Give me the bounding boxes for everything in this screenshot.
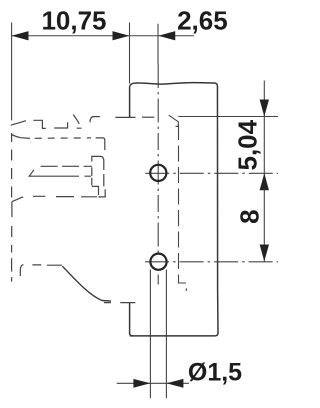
node: rectangle bottom edge (dashed) (12, 197, 23, 202)
node: top contour dash b (115, 116, 135, 118)
node: center line vertical x=158 (dash-dot) (157, 64, 159, 285)
svg-text:8: 8 (235, 209, 265, 223)
node: hole 2 (circle) (150, 254, 166, 270)
wire: extension line right (x=158) (157, 24, 159, 64)
node: bracket right lower (92, 167, 104, 195)
node: rect bottom right corner (99, 189, 106, 197)
node: body foot curve (62, 266, 111, 301)
node: beak upper jaw (11, 121, 26, 126)
node: left vertical dash below beak (11, 133, 13, 142)
node: rectangle bottom chamfer (11, 202, 13, 282)
node: left vertical hidden line (dashed) (11, 150, 13, 200)
node: foot hidden dashes (104, 302, 135, 304)
svg-text:5,04: 5,04 (233, 119, 263, 170)
node: arrow down to y=116.5 (260, 100, 269, 117)
node: arrow right of 10,75 / left of 2,65 (113, 31, 130, 40)
node: body foot left edge (130, 303, 133, 336)
node: arrow right of 2,65 (158, 31, 175, 40)
node: arrow right to x=150.4 (133, 379, 150, 388)
wire: extension line mid (x=129.5) (129, 23, 131, 84)
node: beak lower jaw (11, 134, 30, 138)
wire: extension line y=116.5 (178, 116, 278, 118)
svg-text:Ø1,5: Ø1,5 (188, 359, 242, 387)
node: top contour hook diagonal (73, 115, 81, 129)
node: slot lower line with notch (29, 170, 91, 176)
wire: extension line left (x=11.5) (11, 23, 13, 121)
wire: bottom ext line right (x=165.8) (165, 270, 167, 399)
node: arrow down to y=261.5 (260, 245, 269, 262)
node: bracket inner rect (92, 156, 104, 170)
wire: bottom ext line left (x=150.4) (149, 270, 151, 399)
node: top contour corner curve (90, 117, 100, 123)
svg-text:10,75: 10,75 (41, 6, 106, 36)
wire: right dimension line x=264.3 (263, 81, 265, 262)
node: arrow left of 10,75 (12, 31, 29, 40)
node: top contour step (54, 122, 68, 128)
node: top contour corner piece (33, 120, 46, 128)
node: bottom dashes row (32, 264, 62, 266)
node: arrow left to x=165.8 (166, 379, 183, 388)
node: arrow up to y=173.3 (260, 173, 269, 190)
svg-text:2,65: 2,65 (177, 6, 228, 36)
node: hole 1 (circle) (150, 165, 166, 181)
node: rect bottom dashes (33, 195, 97, 198)
node: main body outline (solid) (130, 83, 218, 336)
node: center line through hole 2 (y=261.8) (145, 261, 278, 263)
node: top contour dash c (142, 116, 154, 118)
node: hidden vertical line x=178.5 (dashed) (179, 124, 187, 291)
node: slot upper line (dashed) (41, 165, 92, 167)
node: inner hook near top (169, 115, 179, 126)
node: center line through hole 1 (y=173.3) (145, 172, 278, 174)
node: bottom hook curve (20, 265, 23, 276)
wire: bottom dimension line y=383.3 (117, 382, 189, 384)
node: rect top right corner (96, 138, 105, 150)
wire: top dimension line y=35.75 (12, 35, 195, 37)
node: second contour line (dashed) (35, 137, 91, 139)
